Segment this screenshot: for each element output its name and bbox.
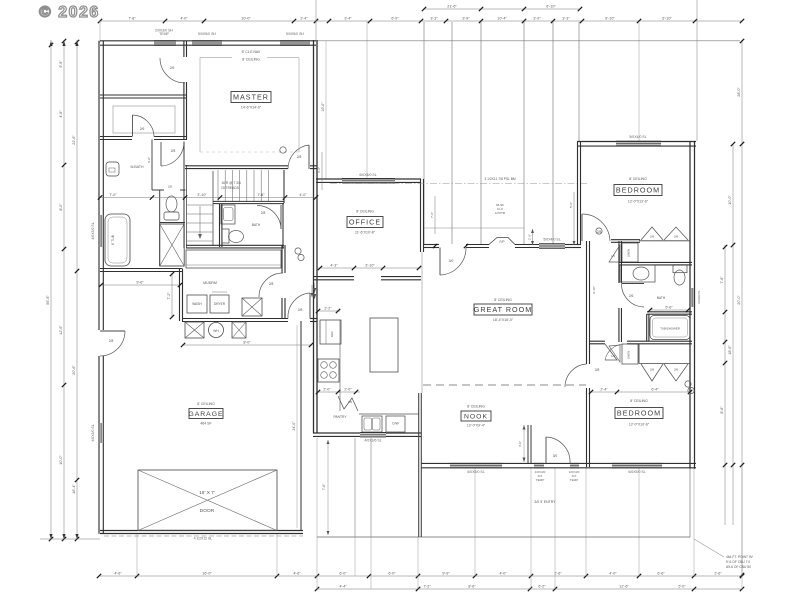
svg-text:464 FT. POINT 9V: 464 FT. POINT 9V <box>726 555 754 559</box>
patio east edge <box>689 469 691 537</box>
svg-text:5/0X4/0 SL: 5/0X4/0 SL <box>629 135 646 139</box>
svg-text:2/8: 2/8 <box>298 308 303 312</box>
svg-text:1/6: 1/6 <box>611 254 615 258</box>
mud door <box>259 273 283 297</box>
great room west line <box>421 252 423 393</box>
svg-text:4'-6": 4'-6" <box>293 571 301 575</box>
svg-text:REF: REF <box>330 331 334 337</box>
bath1 door <box>622 283 645 285</box>
patio dim <box>327 440 329 535</box>
garage south wall <box>100 530 303 532</box>
svg-text:2'-2": 2'-2" <box>324 306 332 310</box>
office top wall <box>316 178 421 180</box>
svg-text:24'-0": 24'-0" <box>292 421 296 431</box>
great room door <box>439 248 441 276</box>
svg-text:2'-0": 2'-0" <box>344 387 352 391</box>
svg-text:4'-0": 4'-0" <box>299 193 307 197</box>
bedroom1 south wall <box>611 239 640 241</box>
svg-text:TUB/SHOWER: TUB/SHOWER <box>660 327 680 331</box>
svg-text:4'-6": 4'-6" <box>518 441 522 447</box>
svg-text:2'-0": 2'-0" <box>323 387 331 391</box>
svg-text:3 1/2X11 7/8 PSL BM: 3 1/2X11 7/8 PSL BM <box>484 177 516 181</box>
hall bath south wall <box>186 244 284 246</box>
svg-text:2/8: 2/8 <box>109 339 114 343</box>
stair risers lower <box>187 204 213 206</box>
dim 2-6 at 532 <box>532 229 534 245</box>
bottom dim string 2 <box>317 588 742 590</box>
dryer box <box>210 295 229 313</box>
furnace xbox <box>185 322 204 338</box>
svg-text:BEDROOM: BEDROOM <box>616 186 660 195</box>
porch post lines <box>354 438 356 537</box>
nook east wall <box>586 241 588 364</box>
window 5/0x4/0 bedroom1 top <box>616 140 661 142</box>
dim extension 16-0 <box>325 41 327 179</box>
svg-text:5/0X4/0 SL: 5/0X4/0 SL <box>543 238 560 242</box>
bedroom1 door <box>581 214 583 241</box>
upper floor line <box>316 40 740 42</box>
south wall nook-bed2 <box>421 462 696 464</box>
office dim string <box>316 267 421 269</box>
svg-text:6' TUB: 6' TUB <box>111 234 115 245</box>
svg-text:4'-6": 4'-6" <box>114 571 122 575</box>
svg-text:2/0: 2/0 <box>348 400 353 404</box>
svg-text:3'-4": 3'-4" <box>344 16 352 20</box>
svg-text:6/0X5/0 SL: 6/0X5/0 SL <box>467 470 484 474</box>
window 5/0x5/0 master top B <box>280 40 310 42</box>
garage hall dim 7-2 <box>171 273 173 318</box>
svg-text:16 R @ 7 3/4: 16 R @ 7 3/4 <box>221 181 241 185</box>
svg-text:8' CEILING: 8' CEILING <box>630 399 648 403</box>
svg-text:28'-0": 28'-0" <box>737 87 741 97</box>
svg-text:18'-4"X16'-0": 18'-4"X16'-0" <box>493 318 514 322</box>
window bath1 right wall <box>689 288 691 307</box>
note leader bottom right <box>694 539 724 557</box>
svg-text:9'-6": 9'-6" <box>136 280 144 284</box>
bedroom1 smoke <box>596 228 602 234</box>
svg-text:5/0X5/0 SH: 5/0X5/0 SH <box>198 32 216 36</box>
tub room walls <box>647 311 692 313</box>
svg-text:4'-4": 4'-4" <box>339 584 347 588</box>
entry west stub <box>527 425 529 464</box>
closet2 door <box>132 115 134 137</box>
svg-text:A9-6 OF CBU 50: A9-6 OF CBU 50 <box>726 565 751 569</box>
wall master east double <box>313 40 315 433</box>
master tub <box>105 214 130 266</box>
svg-text:4'-0": 4'-0" <box>499 571 507 575</box>
exterior wall master top <box>100 40 316 42</box>
svg-text:12'-6": 12'-6" <box>619 584 629 588</box>
front door <box>545 437 547 464</box>
svg-text:M.BATH: M.BATH <box>131 165 144 169</box>
svg-text:4/0X3/6 SL: 4/0X3/6 SL <box>364 439 381 443</box>
svg-text:3/0: 3/0 <box>553 454 558 458</box>
entry east wall <box>420 179 422 252</box>
svg-text:WASH: WASH <box>192 302 202 306</box>
entry rotated dims <box>321 152 323 190</box>
svg-text:LINEN: LINEN <box>627 249 631 258</box>
svg-text:2/8: 2/8 <box>269 282 274 286</box>
svg-text:3/0 9' ENTRY: 3/0 9' ENTRY <box>534 500 556 504</box>
wic south wall <box>100 94 187 96</box>
mbath sink <box>106 162 119 176</box>
hall bath east wall <box>282 203 284 248</box>
kitchen counter edge <box>339 320 341 411</box>
svg-text:8'-0": 8'-0" <box>243 340 251 344</box>
svg-text:5'-6": 5'-6" <box>665 305 673 309</box>
svg-text:7'-6": 7'-6" <box>720 276 724 284</box>
window 6/0x5/0 nook south <box>450 462 502 464</box>
hall bath toilet <box>222 229 229 243</box>
svg-text:9'-10": 9'-10" <box>592 286 596 294</box>
svg-text:4'-6": 4'-6" <box>59 110 63 118</box>
svg-text:9'-6": 9'-6" <box>59 60 63 68</box>
great room north wall <box>423 244 439 246</box>
entry sidelite right <box>570 462 579 464</box>
bath1 toilet <box>673 265 687 273</box>
master inner ceiling rect <box>200 57 232 59</box>
office bottom wall <box>313 276 354 278</box>
svg-text:3'-9": 3'-9" <box>462 16 470 20</box>
svg-text:3'-10": 3'-10" <box>365 263 375 267</box>
kitchen dim 2-2 <box>316 310 340 312</box>
svg-text:8'-6": 8'-6" <box>720 406 724 414</box>
svg-text:2/6: 2/6 <box>650 235 655 239</box>
svg-text:8'-6": 8'-6" <box>468 584 476 588</box>
svg-text:6/0X5/0 SL: 6/0X5/0 SL <box>359 173 376 177</box>
svg-text:5'-6": 5'-6" <box>569 202 573 208</box>
svg-text:15 TREADS: 15 TREADS <box>221 186 240 190</box>
svg-text:DRYER: DRYER <box>214 302 226 306</box>
bedroom2 door wedge <box>605 344 617 360</box>
kitchen south wall <box>313 432 360 434</box>
kitchen dims mid <box>316 391 360 393</box>
bedroom2 north wall <box>589 340 605 342</box>
upper area line y228 <box>424 227 524 229</box>
svg-text:16'-0": 16'-0" <box>321 102 325 112</box>
svg-text:464 SF: 464 SF <box>200 422 211 426</box>
svg-text:10'-4": 10'-4" <box>497 16 507 20</box>
left dimension strings <box>50 40 52 539</box>
svg-text:2/6: 2/6 <box>674 368 679 372</box>
bedroom2 closet doors <box>641 364 688 381</box>
svg-text:4 1/2X12 GL: 4 1/2X12 GL <box>194 536 213 540</box>
bedroom2 smoke <box>685 381 691 387</box>
wic wall lower <box>183 142 185 249</box>
linen top <box>622 243 638 262</box>
master door <box>308 145 310 169</box>
window 4/0x3/0 left bath <box>98 215 100 247</box>
window 5/0x5/0 master top A <box>192 40 222 42</box>
svg-text:2'-6": 2'-6" <box>528 234 532 240</box>
svg-text:2'-4": 2'-4" <box>600 387 608 391</box>
mbath door <box>160 142 162 166</box>
svg-text:3'-3": 3'-3" <box>430 16 438 20</box>
svg-text:8' CEILING: 8' CEILING <box>356 210 374 214</box>
dim 5-6 at 574 <box>573 192 575 245</box>
svg-text:3'-6": 3'-6" <box>147 157 151 163</box>
svg-text:2/6: 2/6 <box>170 66 175 70</box>
svg-text:BEDROOM: BEDROOM <box>617 409 661 418</box>
washer box <box>187 295 207 313</box>
svg-text:10'-0": 10'-0" <box>728 195 732 205</box>
svg-text:2/6: 2/6 <box>674 235 679 239</box>
pantry door <box>338 396 358 411</box>
svg-text:8' CEILING: 8' CEILING <box>467 405 485 409</box>
svg-text:4'-3": 4'-3" <box>330 263 338 267</box>
garage hall dim 9-6 <box>100 284 181 286</box>
svg-text:2/8: 2/8 <box>297 155 302 159</box>
svg-text:3'-3": 3'-3" <box>562 16 570 20</box>
hall bath door <box>257 206 281 230</box>
svg-text:6/0X5/0 SL: 6/0X5/0 SL <box>628 470 645 474</box>
svg-text:TEMP: TEMP <box>536 478 545 482</box>
svg-text:4/0X3/0 SL: 4/0X3/0 SL <box>91 424 95 441</box>
svg-text:4'-0": 4'-0" <box>609 571 617 575</box>
svg-text:12'-6": 12'-6" <box>59 325 63 335</box>
patio west wall <box>418 393 420 537</box>
svg-text:TEMP: TEMP <box>570 478 579 482</box>
window 5/0 great room north <box>539 243 565 245</box>
svg-text:8' CEILING: 8' CEILING <box>242 58 260 62</box>
svg-text:4/0X3/0 SL: 4/0X3/0 SL <box>91 222 95 239</box>
svg-text:7'-6": 7'-6" <box>322 483 326 490</box>
svg-text:2/0: 2/0 <box>168 185 173 189</box>
svg-text:16'-0": 16'-0" <box>202 571 212 575</box>
svg-text:6'-0": 6'-0" <box>388 571 396 575</box>
garage door opening line <box>138 529 277 531</box>
garage side door <box>100 330 125 332</box>
svg-text:6'-0": 6'-0" <box>339 571 347 575</box>
svg-text:© 2026: © 2026 <box>39 4 100 21</box>
closet2 inner rect <box>113 106 175 133</box>
svg-text:DOOR: DOOR <box>200 508 215 514</box>
exterior wall right <box>689 142 691 469</box>
bath1 north wall <box>619 261 692 263</box>
garage north wall <box>182 318 288 320</box>
kitchen sink counter <box>359 413 419 415</box>
svg-text:2/6: 2/6 <box>629 294 634 298</box>
garage dim 8-0 <box>182 344 312 346</box>
svg-text:21'-6": 21'-6" <box>447 4 457 8</box>
svg-text:GARAGE: GARAGE <box>188 411 223 418</box>
master smoke detector <box>280 147 286 153</box>
svg-text:3'-6": 3'-6" <box>317 167 321 173</box>
right dimension strings <box>741 40 743 575</box>
svg-text:MASTER: MASTER <box>233 93 269 102</box>
master label <box>231 92 271 103</box>
svg-text:OFFICE: OFFICE <box>349 218 381 227</box>
window 6/0x5/0 office <box>342 178 395 180</box>
svg-text:BATH: BATH <box>657 296 666 300</box>
svg-text:8' CLG NAV: 8' CLG NAV <box>242 50 261 54</box>
svg-text:2/8: 2/8 <box>171 149 176 153</box>
svg-text:3'-9": 3'-9" <box>533 16 541 20</box>
svg-text:PANTRY: PANTRY <box>333 415 347 419</box>
svg-text:6'-2": 6'-2" <box>538 584 546 588</box>
fridge <box>320 320 341 344</box>
dim string hall <box>100 197 316 199</box>
svg-text:MUDRM: MUDRM <box>203 281 217 285</box>
stair risers upper <box>217 170 219 201</box>
mud closet band <box>186 250 281 268</box>
svg-text:10'-0": 10'-0" <box>241 16 251 20</box>
wc walls <box>159 190 161 266</box>
svg-text:5'-0": 5'-0" <box>678 584 686 588</box>
svg-text:7'-6": 7'-6" <box>430 212 434 218</box>
svg-text:56'-6": 56'-6" <box>46 295 50 305</box>
water heater <box>209 323 224 338</box>
stair box <box>212 171 214 246</box>
dimension string top main <box>100 20 742 22</box>
svg-text:BATH: BATH <box>252 223 261 227</box>
closet2 south wall <box>100 136 132 138</box>
svg-text:2/8: 2/8 <box>595 368 600 372</box>
svg-text:WH: WH <box>213 329 219 333</box>
mud dim arrow <box>311 285 313 297</box>
hall east wall <box>618 241 620 283</box>
svg-text:NOOK: NOOK <box>464 414 488 421</box>
window 4/0x3/6 kitchen <box>360 432 386 434</box>
nook dim <box>523 425 525 462</box>
svg-text:2'-4": 2'-4" <box>300 16 308 20</box>
wic door <box>160 58 185 83</box>
kitchen range <box>318 359 339 382</box>
linen wedge bottom <box>609 345 620 362</box>
svg-text:2/6: 2/6 <box>140 127 145 131</box>
svg-text:16' X 7': 16' X 7' <box>199 490 215 496</box>
svg-text:10'-0": 10'-0" <box>59 455 63 465</box>
great room door ticks <box>433 244 437 248</box>
svg-text:9'-6 OF CBU 7.0: 9'-6 OF CBU 7.0 <box>726 560 750 564</box>
svg-text:7'-0": 7'-0" <box>109 193 117 197</box>
dim arrowheads left strings <box>49 41 52 46</box>
kitchen island <box>370 318 398 372</box>
exterior wall left <box>98 41 100 215</box>
hall smoke detectors <box>295 248 301 254</box>
window 4/0x3/0 left garage <box>98 423 100 443</box>
svg-text:8' CEILING: 8' CEILING <box>629 177 647 181</box>
mud xbox <box>242 298 262 316</box>
bedroom1 closet doors <box>641 227 688 240</box>
entry sidelite left <box>534 462 544 464</box>
svg-text:22'-6": 22'-6" <box>72 135 76 145</box>
svg-text:6'-6": 6'-6" <box>657 571 665 575</box>
svg-text:2/8: 2/8 <box>261 211 266 215</box>
shower xbox <box>160 224 185 266</box>
svg-text:20'-6": 20'-6" <box>72 365 76 375</box>
garage dim 24-0 <box>296 325 298 528</box>
wic east wall <box>183 41 185 57</box>
bedroom1 top wall <box>577 141 696 143</box>
svg-text:12'-0"X10'-6": 12'-0"X10'-6" <box>629 423 650 427</box>
fireplace <box>489 238 515 245</box>
svg-text:18'-6": 18'-6" <box>728 345 732 355</box>
master south wall <box>185 165 288 167</box>
window 6/0x5/0 bed2 south <box>612 462 662 464</box>
svg-text:8' CEILING: 8' CEILING <box>494 298 512 302</box>
svg-text:5/0X5/0 SH: 5/0X5/0 SH <box>286 32 304 36</box>
svg-text:12'-0"X9'-4": 12'-0"X9'-4" <box>467 424 486 428</box>
master bath south wall <box>100 268 182 270</box>
svg-text:9'-9": 9'-9" <box>442 571 450 575</box>
beam dash-dot <box>330 183 588 185</box>
svg-text:20'-0": 20'-0" <box>737 295 741 305</box>
extension lines upper area <box>423 22 425 244</box>
svg-text:7'-2": 7'-2" <box>167 292 171 300</box>
svg-text:14'-6"X14'-0": 14'-6"X14'-0" <box>241 106 262 110</box>
svg-text:3'-10": 3'-10" <box>197 193 207 197</box>
great room south dashed <box>423 384 586 386</box>
svg-text:6'-4": 6'-4" <box>651 387 659 391</box>
svg-text:16'-4": 16'-4" <box>72 484 76 494</box>
hall bath sink <box>221 205 235 224</box>
svg-text:6'-10": 6'-10" <box>546 4 556 8</box>
svg-text:2'-6": 2'-6" <box>714 571 722 575</box>
bedroom2 dim string <box>589 391 692 393</box>
mbath partition <box>151 140 153 191</box>
garage door xbox <box>138 470 277 531</box>
svg-text:11'-6"X10'-8": 11'-6"X10'-8" <box>355 231 376 235</box>
garage east wall <box>300 321 302 530</box>
svg-text:6'-9": 6'-9" <box>391 16 399 20</box>
svg-text:12'-0"X13'-6": 12'-0"X13'-6" <box>628 200 649 204</box>
kitchen dim arrow <box>314 283 316 299</box>
svg-text:LINEN: LINEN <box>627 351 631 360</box>
window 2/0x3/0 master top <box>154 40 176 42</box>
svg-text:2/6: 2/6 <box>650 368 655 372</box>
bedroom1 west wall <box>577 142 579 246</box>
stair down arrow <box>199 206 201 237</box>
svg-text:D/W: D/W <box>392 422 398 426</box>
svg-text:LOVTR: LOVTR <box>495 211 506 215</box>
tub shower <box>650 316 690 340</box>
hall bath west wall <box>219 204 221 247</box>
patio edge south <box>317 536 690 538</box>
bottom dim string 1 <box>99 575 742 577</box>
mud west wall <box>179 269 181 322</box>
svg-text:7'-2": 7'-2" <box>423 584 431 588</box>
left bottom dim line <box>40 538 100 540</box>
tub dim <box>649 309 690 311</box>
svg-text:GREAT ROOM: GREAT ROOM <box>474 305 532 314</box>
svg-text:2'-6": 2'-6" <box>554 571 562 575</box>
svg-text:4'-0": 4'-0" <box>180 16 188 20</box>
dimension string top secondary <box>424 8 580 10</box>
svg-text:EGRESS: EGRESS <box>697 291 701 304</box>
hall door to kitchen <box>309 293 311 319</box>
hall south door <box>565 364 587 387</box>
svg-text:6'-10": 6'-10" <box>605 16 615 20</box>
garage header dashed <box>104 535 303 537</box>
svg-text:8' CEILING: 8' CEILING <box>197 402 215 406</box>
svg-text:3/0: 3/0 <box>449 259 454 263</box>
bottom extension lines <box>136 533 138 576</box>
wc toilet <box>164 212 179 220</box>
svg-text:8'-0": 8'-0" <box>59 203 63 211</box>
furnace xbox 2 <box>232 322 246 338</box>
linen wedge top <box>609 245 620 262</box>
bath1 sink counter <box>620 265 655 282</box>
linen bottom <box>622 344 638 364</box>
svg-text:F/P: F/P <box>500 240 505 244</box>
mudroom east wall <box>281 245 283 273</box>
svg-text:7'-8": 7'-8" <box>128 16 136 20</box>
bedroom2 closet partition <box>638 344 640 364</box>
svg-text:7'-8": 7'-8" <box>257 193 265 197</box>
svg-text:TEMP: TEMP <box>159 32 169 36</box>
svg-text:6'-10": 6'-10" <box>662 16 672 20</box>
